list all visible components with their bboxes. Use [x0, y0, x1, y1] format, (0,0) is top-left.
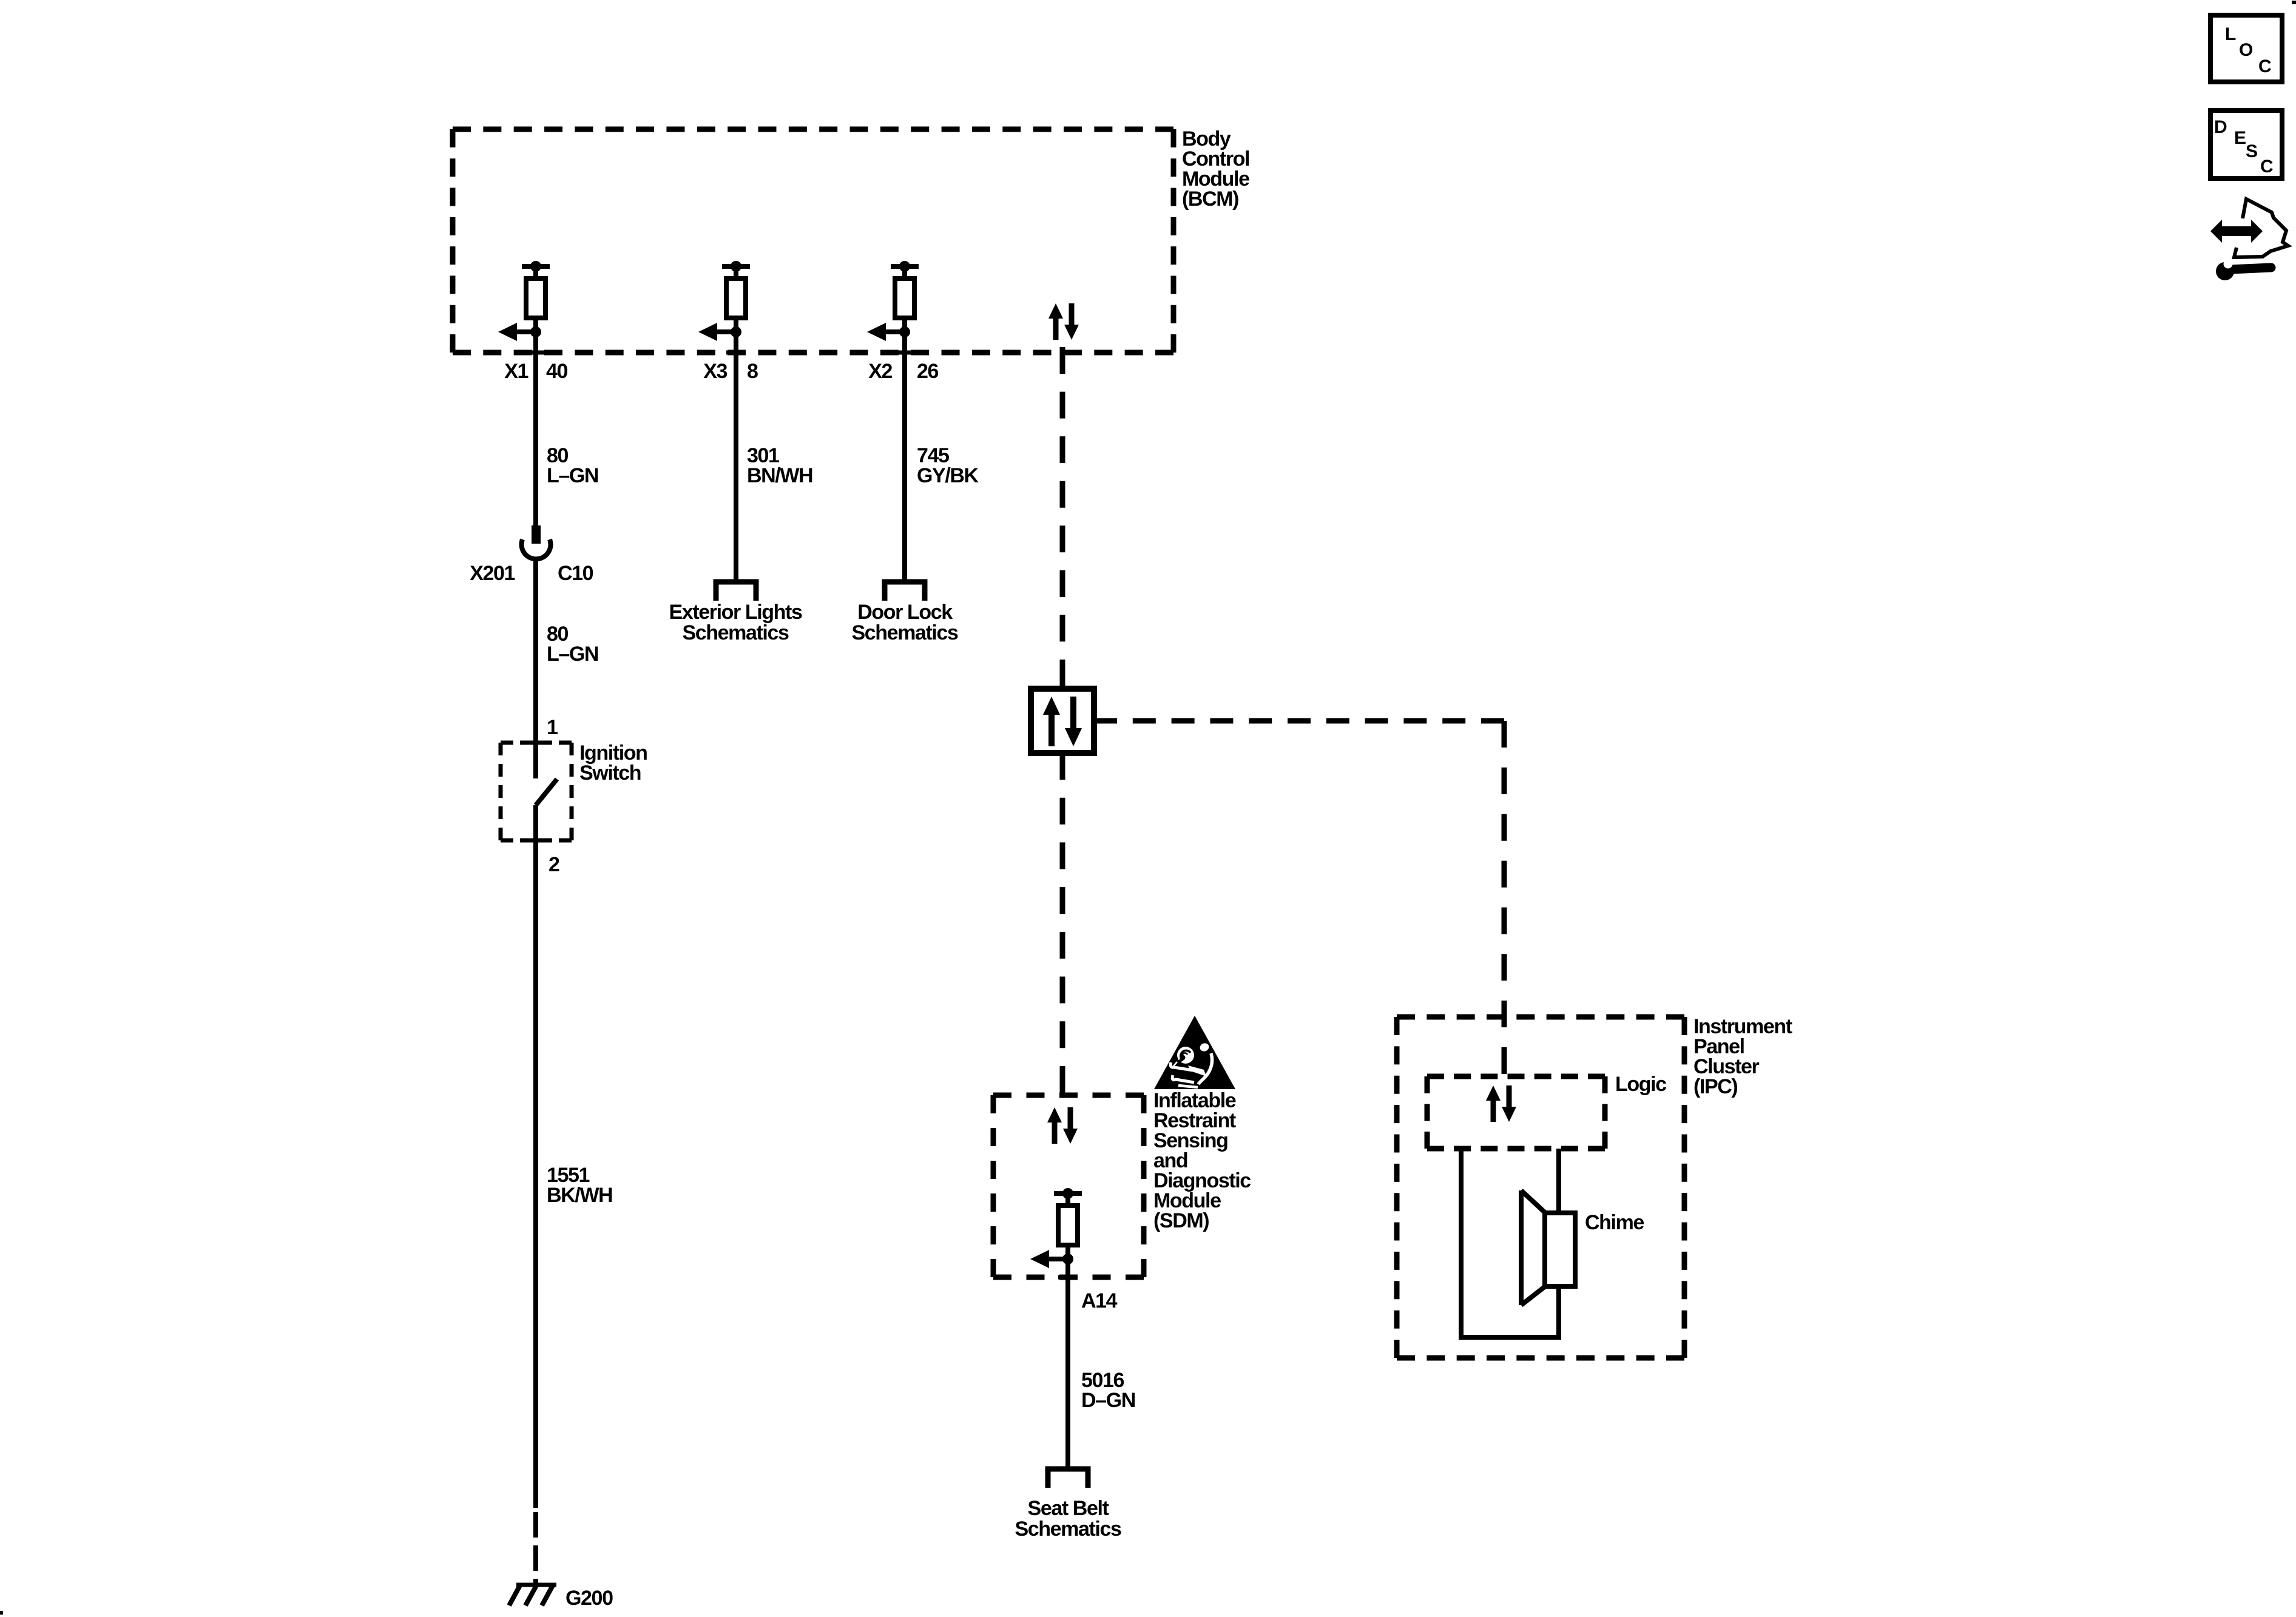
label Door Lock Schematics: [852, 601, 958, 644]
svg-text:(IPC): (IPC): [1693, 1075, 1737, 1098]
svg-text:Schematics: Schematics: [1015, 1517, 1121, 1541]
switch blade ignition switch: [536, 779, 557, 805]
wire logic to chime right lead: [1556, 1149, 1561, 1213]
svg-text:C: C: [2258, 56, 2271, 76]
svg-text:Door Lock: Door Lock: [857, 601, 953, 624]
svg-text:(BCM): (BCM): [1182, 187, 1238, 211]
svg-text:X201: X201: [470, 562, 515, 585]
module box Instrument Panel Cluster (IPC): [1397, 1017, 1684, 1358]
serial data symbol box: [1031, 689, 1094, 753]
wire serial data node to SDM (dashed): [1060, 753, 1065, 1093]
serial data arrows in BCM: [1048, 303, 1079, 340]
dashed wire segment to ground: [533, 1512, 538, 1585]
serial data arrows in SDM: [1047, 1107, 1078, 1144]
svg-text:D–GN: D–GN: [1081, 1389, 1135, 1412]
LOC key box: [2210, 15, 2282, 82]
wire serial data drop to IPC logic (dashed vertical): [1502, 721, 1507, 1074]
wire SDM pin A14 to Seat Belt (5016 D-GN): [1058, 1259, 1078, 1468]
svg-text:S: S: [2246, 141, 2257, 161]
wire serial data node to IPC (dashed horizontal): [1094, 718, 1504, 724]
svg-text:L: L: [2225, 24, 2236, 44]
warning triangle airbag icon: [1154, 1016, 1235, 1089]
svg-text:Seat Belt: Seat Belt: [1028, 1497, 1109, 1520]
svg-text:BN/WH: BN/WH: [747, 464, 812, 487]
svg-text:26: 26: [917, 360, 939, 383]
off-page connector Door Lock: [885, 582, 925, 601]
svg-text:8: 8: [747, 360, 758, 383]
svg-text:C: C: [2260, 157, 2273, 177]
label Ignition Switch: [579, 741, 647, 785]
label BCM name: [1182, 127, 1249, 211]
svg-text:O: O: [2239, 40, 2253, 60]
logic box IPC Logic: [1427, 1076, 1605, 1149]
wire value label 1551 BK/WH: [547, 1164, 612, 1207]
svg-text:L–GN: L–GN: [547, 643, 598, 666]
svg-text:GY/BK: GY/BK: [917, 464, 979, 487]
svg-text:Schematics: Schematics: [683, 621, 789, 644]
label SDM name: [1153, 1089, 1251, 1232]
wire BCM pin X3-8 to Exterior Lights (301 BN/WH): [726, 332, 746, 581]
wire value label 301 BN/WH: [747, 444, 812, 487]
svg-text:Switch: Switch: [579, 761, 641, 785]
svg-text:1: 1: [547, 716, 558, 739]
switch box Ignition Switch: [501, 743, 572, 840]
svg-text:(SDM): (SDM): [1153, 1209, 1209, 1232]
artifact dot bottom left: [0, 1611, 3, 1615]
serial data arrows in Logic: [1486, 1085, 1516, 1122]
wire BCM pin X1-40 to connector X201: [526, 332, 545, 527]
artifact dot top right: [2292, 1, 2296, 4]
module box Body Control Module (BCM): [453, 129, 1173, 353]
label IPC name: [1693, 1015, 1792, 1098]
service info icon (arrow, connector, wrench): [2210, 199, 2288, 280]
wire value label 745 GY/BK: [917, 444, 979, 487]
ground G200: [509, 1585, 556, 1605]
svg-text:Logic: Logic: [1615, 1073, 1666, 1096]
wire value label 5016 D-GN: [1081, 1369, 1135, 1412]
svg-text:40: 40: [546, 360, 568, 383]
wire value label 80 L-GN (upper): [547, 444, 598, 487]
module box Inflatable Restraint Sensing and Diagnostic Module (SDM): [993, 1095, 1144, 1277]
svg-text:X1: X1: [504, 360, 528, 383]
resistor BCM internal (pin X1-40): [498, 261, 550, 341]
svg-text:Schematics: Schematics: [852, 621, 958, 644]
svg-text:2: 2: [549, 853, 559, 876]
DESC key box: [2210, 110, 2282, 178]
wire logic to chime left lead: [1461, 1149, 1559, 1337]
svg-text:D: D: [2214, 117, 2227, 137]
chime speaker: [1521, 1190, 1575, 1305]
svg-text:A14: A14: [1081, 1289, 1118, 1312]
svg-text:C10: C10: [558, 562, 593, 585]
svg-text:E: E: [2234, 128, 2246, 148]
svg-text:G200: G200: [566, 1587, 613, 1610]
svg-text:X3: X3: [703, 360, 727, 383]
wire serial data BCM to data link node (dashed): [1060, 347, 1065, 686]
svg-text:L–GN: L–GN: [547, 464, 598, 487]
resistor SDM internal (pin A14): [1030, 1188, 1082, 1268]
svg-text:X2: X2: [868, 360, 892, 383]
terminal tick top of ignition switch: [527, 741, 545, 745]
wire ignition switch to G200 (1551 BK/WH): [533, 805, 538, 1508]
wire value label 80 L-GN (lower): [547, 623, 598, 666]
svg-text:Exterior Lights: Exterior Lights: [669, 601, 802, 624]
off-page connector Seat Belt: [1048, 1469, 1088, 1488]
terminal tick bottom of ignition switch: [527, 839, 545, 843]
svg-text:Chime: Chime: [1585, 1211, 1644, 1234]
svg-text:BK/WH: BK/WH: [547, 1184, 612, 1207]
resistor BCM internal (pin X3-8): [698, 261, 750, 341]
connector X201 C10 (in-line): [522, 525, 551, 559]
wire BCM pin X2-26 to Door Lock (745 GY/BK): [895, 332, 914, 581]
serial data arrows in data link symbol: [1043, 697, 1082, 746]
off-page connector Exterior Lights: [716, 582, 756, 601]
resistor BCM internal (pin X2-26): [867, 261, 919, 341]
label Exterior Lights Schematics: [669, 601, 802, 644]
label Seat Belt Schematics: [1015, 1497, 1121, 1541]
wire X201 to ignition switch: [533, 559, 538, 778]
